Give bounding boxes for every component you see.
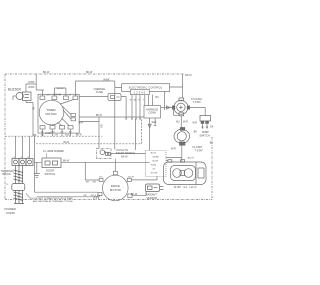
harness connector CN1 (dashed box) xyxy=(144,106,161,119)
wire PTS to relay xyxy=(111,153,146,155)
svg-text:W-BK: W-BK xyxy=(151,164,157,166)
svg-text:W-BK: W-BK xyxy=(45,132,52,135)
svg-text:BK-W: BK-W xyxy=(86,71,93,74)
console partition line 1 xyxy=(5,135,102,137)
svg-text:AND NEUTRAL AT TERMINAL-TYPICA: AND NEUTRAL AT TERMINAL-TYPICAL xyxy=(33,200,74,203)
svg-text:BK-R: BK-R xyxy=(76,135,82,137)
svg-text:L1: L1 xyxy=(13,157,15,159)
wire node drop left of harness xyxy=(98,117,100,148)
svg-text:BU-R: BU-R xyxy=(151,152,157,154)
timer contact TM7 xyxy=(60,126,65,130)
svg-text:W: W xyxy=(130,100,132,102)
wire timer to thermal fuse xyxy=(79,96,108,98)
cabinet outline bottom xyxy=(5,199,212,201)
wire harness to cycling tstat xyxy=(161,107,172,109)
svg-text:BU: BU xyxy=(176,121,180,124)
gas valve assembly GV xyxy=(164,160,207,185)
svg-text:BK: BK xyxy=(194,132,198,134)
svg-text:DOOR: DOOR xyxy=(46,169,54,173)
svg-text:GY: GY xyxy=(99,176,103,178)
svg-text:T-STAT: T-STAT xyxy=(195,149,204,152)
svg-text:BK-BK: BK-BK xyxy=(57,88,64,90)
wire motor upper-right to relay xyxy=(131,177,157,180)
svg-text:W-R: W-R xyxy=(79,122,84,124)
wire relay to gas valve xyxy=(166,158,182,161)
svg-text:4M: 4M xyxy=(91,195,94,197)
push-to-start switch S1 (dash-dot box) xyxy=(97,148,112,158)
timer contact TM5 xyxy=(40,126,45,130)
svg-text:BU: BU xyxy=(99,125,101,129)
wire tstat bottom to hi-limit xyxy=(180,116,182,128)
svg-text:BU-R: BU-R xyxy=(64,142,70,144)
wire motor lower-left xyxy=(34,191,98,193)
svg-text:FUSE: FUSE xyxy=(96,90,103,94)
svg-text:W-R: W-R xyxy=(193,123,198,125)
temp switch S2 xyxy=(200,116,211,124)
svg-text:BK: BK xyxy=(34,135,38,137)
cabinet outline right xyxy=(211,137,213,200)
terminal block TB xyxy=(12,159,33,166)
svg-text:3M: 3M xyxy=(93,182,96,184)
svg-text:5M: 5M xyxy=(86,182,89,184)
wire timer top contacts feeds xyxy=(43,81,76,96)
svg-text:W-R: W-R xyxy=(152,121,157,124)
svg-text:BU-W: BU-W xyxy=(188,158,195,160)
svg-text:W-R: W-R xyxy=(183,121,188,124)
svg-text:NOTE-UNIT CONNECTED FOR (3) WI: NOTE-UNIT CONNECTED FOR (3) WIRE xyxy=(31,198,73,200)
svg-text:BK-W: BK-W xyxy=(63,160,70,163)
svg-text:BK: BK xyxy=(210,143,214,145)
timer contact TM3 xyxy=(64,96,69,100)
svg-text:5M BK: 5M BK xyxy=(153,156,160,158)
motor stub top xyxy=(113,171,117,175)
wire number note leader xyxy=(46,153,48,158)
wire control pin drops xyxy=(125,95,152,119)
svg-text:12345: 12345 xyxy=(134,91,146,95)
wire harness to relay drop xyxy=(150,118,157,151)
wire tstat right to temp switch xyxy=(190,108,206,116)
wire thermal fuse right xyxy=(121,97,126,120)
wire terminal block feeds xyxy=(16,136,30,158)
wire door switch right long run xyxy=(61,161,150,163)
power cord xyxy=(12,166,25,204)
wire buzzer top xyxy=(26,74,44,92)
svg-text:6M: 6M xyxy=(84,195,87,197)
connector arrow W-R xyxy=(148,124,151,127)
svg-text:BK-W: BK-W xyxy=(121,156,128,159)
wire note leader xyxy=(26,194,31,199)
wire control right to corner drop xyxy=(170,74,183,98)
timer contact TM8 xyxy=(68,126,73,130)
motor stub lower-left xyxy=(98,192,102,195)
wire buzzer left stub xyxy=(13,96,16,100)
wire harness drop to motor bus xyxy=(135,119,137,150)
wire door switch left xyxy=(34,136,42,192)
connector arrow on tstat wire xyxy=(167,106,171,109)
svg-text:BLOCK: BLOCK xyxy=(3,173,12,176)
wire timer W-BK run to control xyxy=(75,80,114,82)
svg-text:BK: BK xyxy=(32,107,35,111)
motor relay box (dashed) xyxy=(146,151,167,177)
cabinet outline left xyxy=(4,74,6,200)
motor stub upper-right xyxy=(127,178,131,181)
svg-text:W: W xyxy=(69,95,71,97)
wire motor lower-right BK-W xyxy=(132,192,146,196)
timer contact TM9 xyxy=(71,114,76,117)
wire tstat left leg L xyxy=(174,109,179,115)
console partition line 2 xyxy=(36,119,142,144)
timer contact TM10 xyxy=(71,118,76,121)
svg-text:CONN: CONN xyxy=(149,111,157,114)
svg-text:BK-W: BK-W xyxy=(131,194,138,196)
buzzer BZ xyxy=(16,92,31,101)
svg-text:BU: BU xyxy=(41,134,44,136)
svg-text:W-BK: W-BK xyxy=(28,81,35,84)
timer contact TM2 xyxy=(52,96,57,100)
motor stub upper-left xyxy=(99,178,103,181)
svg-text:CORD: CORD xyxy=(6,211,16,215)
svg-text:OR: OR xyxy=(55,134,59,136)
svg-text:BK-R: BK-R xyxy=(96,114,102,117)
svg-text:MOTOR: MOTOR xyxy=(45,112,57,116)
timer motor M xyxy=(39,100,64,125)
svg-text:1C.-WIRE NUMBER: 1C.-WIRE NUMBER xyxy=(43,151,64,153)
wire temp switch drops xyxy=(202,123,208,128)
svg-text:SENSOR: SENSOR xyxy=(147,197,158,200)
wire control BU drop xyxy=(164,92,166,111)
electronic control connector pins 1-5 xyxy=(131,90,150,95)
svg-text:SWITCH: SWITCH xyxy=(45,172,56,176)
svg-text:BK-W: BK-W xyxy=(43,71,50,74)
svg-text:R-BU: R-BU xyxy=(65,134,71,136)
svg-text:L2: L2 xyxy=(27,157,29,159)
hi-limit thermostat HL xyxy=(174,128,190,146)
svg-text:W-R: W-R xyxy=(51,132,55,134)
timer contact TM4 xyxy=(73,96,78,100)
svg-text:TEMP: TEMP xyxy=(202,130,209,134)
motor stub lower-right xyxy=(128,194,132,198)
svg-text:W-BK: W-BK xyxy=(28,86,35,89)
svg-text:BUZZER: BUZZER xyxy=(8,88,21,92)
wire timer bottom contacts to partition xyxy=(43,129,71,136)
svg-text:W-R: W-R xyxy=(171,148,176,151)
wire hi-limit to gas valve xyxy=(181,145,183,162)
PTS contacts xyxy=(100,150,110,155)
cabinet outline top xyxy=(5,73,184,75)
wire sensor to valve xyxy=(160,187,164,190)
svg-text:W-BK: W-BK xyxy=(103,78,110,81)
svg-text:BK: BK xyxy=(210,126,214,128)
radiant sensor RS xyxy=(146,184,160,192)
svg-text:BK-W: BK-W xyxy=(185,74,192,77)
svg-text:W-BK GA. 12L/F: W-BK GA. 12L/F xyxy=(174,186,197,189)
svg-text:ELECTRONIC CONTROL: ELECTRONIC CONTROL xyxy=(129,85,163,89)
svg-text:MOTOR: MOTOR xyxy=(110,188,122,192)
timer enclosure (dashed box) xyxy=(38,94,79,133)
thermal fuse TF xyxy=(108,94,121,101)
wire motor frame ground run xyxy=(37,195,100,199)
ground chassis xyxy=(34,162,40,177)
wire into harness left xyxy=(79,116,144,118)
svg-text:SWITCH: SWITCH xyxy=(199,133,209,137)
svg-text:BU-R: BU-R xyxy=(128,176,134,178)
svg-text:BU: BU xyxy=(155,96,159,99)
wire PTS to motor top xyxy=(114,159,116,172)
cycling thermostat CT xyxy=(172,98,189,116)
svg-text:BU-W: BU-W xyxy=(153,160,159,162)
door switch S3 xyxy=(42,158,61,168)
svg-text:L-BU: L-BU xyxy=(46,95,51,97)
timer contact TM1 xyxy=(40,96,45,100)
svg-text:NO BK: NO BK xyxy=(151,172,158,174)
wire timer aux right xyxy=(79,121,99,123)
wire control left feed xyxy=(115,81,122,150)
svg-text:T-STAT: T-STAT xyxy=(193,101,202,104)
wire buzzer bottom to node xyxy=(26,101,33,137)
wire motor upper-left xyxy=(85,162,99,180)
timer cam arms xyxy=(57,100,74,126)
drive motor M1 xyxy=(103,175,129,201)
electronic control U1 xyxy=(122,84,170,92)
timer contact TM6 xyxy=(50,126,55,130)
